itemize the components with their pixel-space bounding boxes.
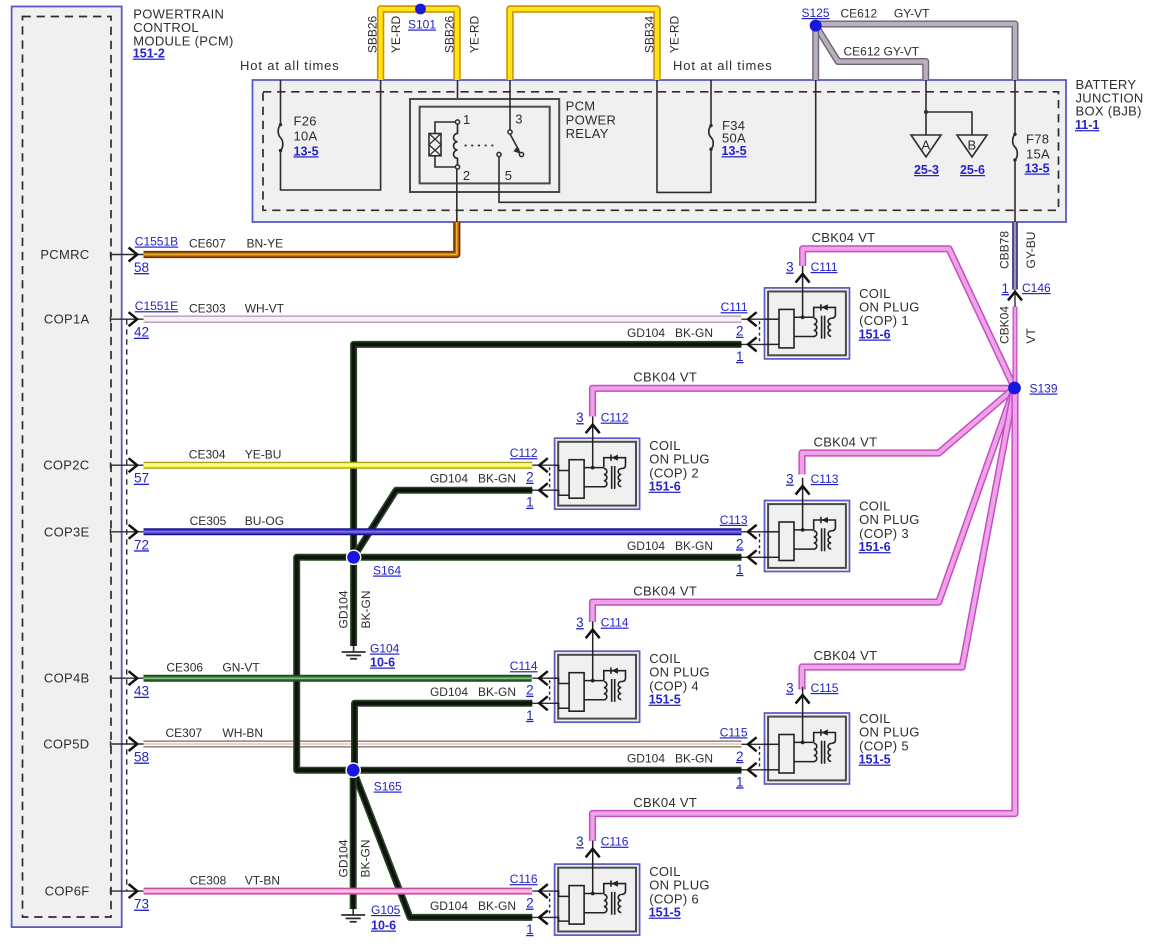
svg-text:GY-BU: GY-BU xyxy=(1024,232,1038,269)
svg-text:58: 58 xyxy=(134,750,149,765)
svg-text:(COP) 1: (COP) 1 xyxy=(859,313,909,328)
svg-text:58: 58 xyxy=(134,260,149,275)
relay outer box xyxy=(410,99,559,192)
lead C146 xyxy=(1014,290,1016,308)
splice S101 xyxy=(415,4,426,15)
svg-text:GD104 BK-GN: GD104 BK-GN xyxy=(430,472,516,486)
arrow into C111 pin 2 xyxy=(748,312,757,326)
lead C112 pin2 xyxy=(532,464,554,466)
splice S165 xyxy=(345,762,361,778)
svg-text:Hot at all times: Hot at all times xyxy=(240,58,340,73)
battery junction box BJB xyxy=(253,80,1067,222)
svg-text:C114: C114 xyxy=(601,616,629,630)
svg-text:COP3E: COP3E xyxy=(44,524,90,539)
arrow out of PCM pin COP1A xyxy=(129,312,138,326)
svg-text:3: 3 xyxy=(786,260,794,275)
wire CBK04 VT S139 to COP2 pin3 xyxy=(593,388,1015,416)
terminal tick PCM pin COP1A xyxy=(110,316,112,322)
arrow into C116 pin 3 xyxy=(586,849,600,858)
label CE307 WH-BN xyxy=(166,726,264,740)
svg-text:2: 2 xyxy=(736,536,744,551)
svg-text:57: 57 xyxy=(134,471,149,486)
svg-text:S101: S101 xyxy=(408,18,436,32)
svg-text:RELAY: RELAY xyxy=(566,126,609,141)
svg-text:43: 43 xyxy=(134,684,149,699)
lead C114 pin1 xyxy=(532,702,554,704)
svg-text:GD104: GD104 xyxy=(336,839,350,877)
arrow into C111 pin 3 xyxy=(796,274,810,283)
arrow into C113 pin 3 xyxy=(796,486,810,495)
svg-text:C115: C115 xyxy=(720,725,748,739)
svg-text:CE304: CE304 xyxy=(189,447,226,461)
label COP5 name xyxy=(859,711,920,767)
svg-text:1: 1 xyxy=(526,495,534,510)
lead PCM pin COP5D xyxy=(111,743,144,745)
arrow into C112 pin 1 xyxy=(539,483,548,497)
svg-text:C113: C113 xyxy=(720,513,748,527)
label COP1 name xyxy=(859,286,920,342)
wire CE306 GN-VT COP4B to COP4 pin2 xyxy=(144,675,532,682)
svg-text:GD104 BK-GN: GD104 BK-GN xyxy=(627,326,713,340)
connector C113 dashed boundary xyxy=(759,534,761,556)
lead C111 pin2 xyxy=(742,318,765,320)
wire CE308 VT-BN COP6F to COP6 pin2 xyxy=(144,888,533,895)
connector C115 dashed boundary xyxy=(759,746,761,768)
svg-text:25-6: 25-6 xyxy=(960,163,985,177)
svg-text:C111: C111 xyxy=(721,300,748,314)
svg-text:GD104 BK-GN: GD104 BK-GN xyxy=(627,539,713,553)
svg-text:CE612 GY-VT: CE612 GY-VT xyxy=(844,45,920,59)
svg-text:VT-BN: VT-BN xyxy=(245,873,280,887)
label CE303 WH-VT xyxy=(189,301,285,315)
svg-text:3: 3 xyxy=(576,410,584,425)
svg-text:(COP) 4: (COP) 4 xyxy=(649,678,699,693)
svg-text:CBK04 VT: CBK04 VT xyxy=(812,230,876,245)
svg-text:CE307: CE307 xyxy=(166,726,203,740)
label COP6 name xyxy=(649,864,710,920)
svg-text:YE-RD: YE-RD xyxy=(389,16,403,54)
svg-text:GD104 BK-GN: GD104 BK-GN xyxy=(627,751,713,765)
svg-text:COP6F: COP6F xyxy=(45,884,90,899)
svg-text:10-6: 10-6 xyxy=(370,656,395,670)
wire relay pin 5 to S125 branch xyxy=(499,80,816,202)
PCM module box xyxy=(12,7,122,928)
arrow into C112 pin 2 xyxy=(539,458,548,472)
lead PCM pin COP3E xyxy=(111,531,144,533)
lead PCM pin COP6F xyxy=(111,890,144,892)
svg-text:C112: C112 xyxy=(601,411,629,425)
connector C112 dashed boundary xyxy=(549,467,551,488)
terminal tick PCM pin COP3E xyxy=(110,529,112,535)
wire CE607 BN-YE PCMRC to relay pin2 xyxy=(144,222,457,255)
wire relay pin 2 to BJB bottom xyxy=(456,169,458,222)
svg-text:YE-BU: YE-BU xyxy=(245,447,282,461)
lead PCM pin COP1A xyxy=(111,318,144,320)
lead PCM pin PCMRC xyxy=(111,254,144,256)
label COP4 name xyxy=(649,651,710,707)
lead C116 pin2 xyxy=(532,890,554,892)
lead C115 pin1 xyxy=(742,769,765,771)
terminal tick PCM pin PCMRC xyxy=(110,252,112,258)
svg-text:2: 2 xyxy=(526,470,534,485)
svg-text:GN-VT: GN-VT xyxy=(222,660,260,674)
svg-text:3: 3 xyxy=(576,615,584,630)
svg-text:(COP) 5: (COP) 5 xyxy=(859,738,909,753)
svg-text:B: B xyxy=(968,138,977,153)
svg-text:CE607: CE607 xyxy=(189,237,226,251)
svg-text:2: 2 xyxy=(736,324,744,339)
svg-text:CBK04 VT: CBK04 VT xyxy=(814,434,878,449)
svg-text:G104: G104 xyxy=(370,642,400,656)
svg-text:C115: C115 xyxy=(811,681,839,695)
svg-text:1: 1 xyxy=(463,112,471,127)
svg-text:F78: F78 xyxy=(1026,131,1049,146)
lead C115 pin2 xyxy=(742,743,765,745)
svg-text:42: 42 xyxy=(134,325,149,340)
wire GD104 BK-GN S165 diagonal to COP6 pin1 xyxy=(353,770,532,917)
svg-text:S139: S139 xyxy=(1030,382,1058,396)
svg-text:(COP) 3: (COP) 3 xyxy=(859,526,909,541)
svg-text:72: 72 xyxy=(134,537,149,552)
svg-text:CE306: CE306 xyxy=(166,660,203,674)
svg-text:5: 5 xyxy=(505,168,513,183)
wire CE303 WH-VT COP1A to COP1 pin2 xyxy=(144,316,742,323)
svg-text:2: 2 xyxy=(526,896,534,911)
svg-text:S125: S125 xyxy=(802,6,830,20)
svg-text:A: A xyxy=(922,138,931,153)
svg-text:3: 3 xyxy=(515,112,523,127)
svg-text:25-3: 25-3 xyxy=(914,163,939,177)
svg-text:BK-GN: BK-GN xyxy=(359,590,373,628)
svg-text:151-5: 151-5 xyxy=(859,753,891,767)
svg-text:C116: C116 xyxy=(601,835,629,849)
svg-text:13-5: 13-5 xyxy=(294,144,319,158)
fuse F26 symbol xyxy=(278,123,283,152)
svg-text:C114: C114 xyxy=(510,659,538,673)
wire SBB26 YE-RD S101 loop xyxy=(381,9,457,80)
wire CBK04 VT C146 to S139 xyxy=(1013,307,1018,385)
arrow out of PCM pin COP6F xyxy=(129,884,138,898)
svg-text:BOX (BJB): BOX (BJB) xyxy=(1076,104,1142,119)
wire SBB34 loop feed xyxy=(657,80,711,192)
svg-text:F26: F26 xyxy=(294,113,317,128)
svg-text:C116: C116 xyxy=(510,872,538,886)
fuse F78 symbol xyxy=(1013,133,1018,162)
label CE607 BN-YE xyxy=(189,237,283,251)
svg-text:1: 1 xyxy=(1001,281,1009,296)
wire CE612 GY-VT S125 to F78 xyxy=(816,24,1015,80)
svg-text:3: 3 xyxy=(576,834,584,849)
connector triangle A xyxy=(911,135,941,157)
arrow out of PCM pin COP2C xyxy=(129,458,138,472)
svg-text:1: 1 xyxy=(526,708,534,723)
terminal tick PCM pin COP4B xyxy=(110,675,112,681)
relay pin 5 terminal xyxy=(497,152,501,156)
svg-text:C1551E: C1551E xyxy=(135,299,178,313)
label PCM title xyxy=(133,6,234,60)
wire GD104 BK-GN S164 to S165 trunk xyxy=(297,557,354,770)
relay coil (inductor) xyxy=(454,122,458,167)
svg-text:1: 1 xyxy=(736,562,744,577)
svg-text:CBK04 VT: CBK04 VT xyxy=(633,795,697,810)
svg-text:PCM: PCM xyxy=(566,99,596,114)
svg-text:(COP) 2: (COP) 2 xyxy=(649,465,699,480)
splice S125 xyxy=(810,20,822,32)
wire CE612 GY-VT S125 to A/B triangles xyxy=(816,26,926,80)
wire CBK04 VT S139 to COP4 pin3 xyxy=(593,388,1015,622)
wire GD104 BK-GN S165 to ground G105 xyxy=(350,770,357,909)
arrow into C111 pin 1 xyxy=(748,337,757,351)
wire CBB78 GY-BU F78 to C146 xyxy=(1012,222,1018,290)
wire CE307 WH-BN COP5D to COP5 pin2 xyxy=(144,741,742,748)
svg-text:SBB26: SBB26 xyxy=(442,15,456,53)
arrow into C115 pin 3 xyxy=(796,695,810,704)
coil on plug COP6 symbol xyxy=(555,841,640,936)
svg-text:BK-GN: BK-GN xyxy=(359,839,373,877)
wire F26 feed from hot-at-all-times xyxy=(280,80,282,125)
junction node A/B xyxy=(924,110,928,114)
wire GD104 BK-GN S165 to COP4 pin1 xyxy=(355,703,533,770)
relay blade contact terminal xyxy=(519,152,523,156)
svg-text:GD104 BK-GN: GD104 BK-GN xyxy=(430,685,516,699)
svg-text:G105: G105 xyxy=(371,903,401,917)
arrow into C146 pin 1 xyxy=(1008,292,1022,301)
lead C116 pin1 xyxy=(532,916,554,918)
arrow into C113 pin 2 xyxy=(748,525,757,539)
svg-text:CBK04: CBK04 xyxy=(998,306,1012,344)
svg-text:C111: C111 xyxy=(811,260,838,274)
wire relay pin 3 feed xyxy=(509,80,511,130)
svg-text:11-1: 11-1 xyxy=(1075,118,1099,132)
terminal tick PCM pin COP6F xyxy=(110,888,112,894)
svg-text:POWER: POWER xyxy=(566,112,617,127)
svg-text:73: 73 xyxy=(134,897,149,912)
svg-text:S165: S165 xyxy=(374,780,402,794)
svg-text:CBB78: CBB78 xyxy=(998,231,1012,269)
svg-text:COP1A: COP1A xyxy=(44,312,90,327)
coil on plug COP5 symbol xyxy=(765,687,850,784)
lead C111 pin1 xyxy=(742,343,765,345)
wire CBK04 VT S139 to COP6 pin3 xyxy=(593,390,1016,841)
svg-text:(COP) 6: (COP) 6 xyxy=(649,891,699,906)
svg-text:SBB26: SBB26 xyxy=(365,15,379,53)
wire F78 feed xyxy=(1014,80,1016,134)
svg-text:3: 3 xyxy=(786,681,794,696)
terminal tick PCM pin COP5D xyxy=(110,741,112,747)
wire GD104 BK-GN S164 to ground G104 xyxy=(350,557,357,646)
arrow into C115 pin 2 xyxy=(748,737,757,751)
terminal tick PCM pin COP2C xyxy=(110,462,112,468)
wire F26 output to SBB26 xyxy=(281,80,381,190)
wire GD104 BK-GN S165 to COP5 pin1 xyxy=(353,767,741,774)
arrow into C114 pin 3 xyxy=(586,630,600,639)
svg-text:13-5: 13-5 xyxy=(722,144,747,158)
svg-text:CBK04 VT: CBK04 VT xyxy=(633,370,697,385)
lead PCM pin COP4B xyxy=(111,677,144,679)
splice S164 xyxy=(346,550,362,566)
svg-text:GD104: GD104 xyxy=(337,590,351,628)
label CE305 BU-OG xyxy=(190,514,284,528)
arrow out of PCM pin PCMRC xyxy=(129,248,138,262)
svg-text:CE308: CE308 xyxy=(190,873,227,887)
lead PCM pin COP2C xyxy=(111,464,144,466)
svg-text:C113: C113 xyxy=(811,472,839,486)
svg-text:YE-RD: YE-RD xyxy=(467,16,481,54)
coil on plug COP4 symbol xyxy=(555,621,640,722)
wire GD104 BK-GN COP1 pin1 to S164 xyxy=(354,344,742,557)
label BJB title xyxy=(1075,77,1144,132)
svg-text:C112: C112 xyxy=(510,446,538,460)
coil on plug COP3 symbol xyxy=(765,478,850,572)
relay suppression resistor xyxy=(429,122,458,167)
relay pin 1 terminal xyxy=(455,120,459,124)
svg-text:1: 1 xyxy=(736,774,744,789)
relay pin 3 terminal xyxy=(508,130,512,134)
svg-text:WH-BN: WH-BN xyxy=(222,726,263,740)
svg-text:VT: VT xyxy=(1024,328,1038,344)
lead C112 pin1 xyxy=(532,489,554,491)
svg-text:CBK04 VT: CBK04 VT xyxy=(633,583,697,598)
svg-text:3: 3 xyxy=(786,472,794,487)
svg-text:COP2C: COP2C xyxy=(43,458,89,473)
arrow into C112 pin 3 xyxy=(586,425,600,434)
svg-text:151-6: 151-6 xyxy=(859,328,891,342)
wire SBB34 YE-RD loop to relay pin3 xyxy=(510,9,657,80)
arrow into C114 pin 1 xyxy=(539,696,548,710)
svg-text:COP4B: COP4B xyxy=(44,671,90,686)
svg-text:1: 1 xyxy=(526,922,534,937)
svg-text:SBB34: SBB34 xyxy=(642,15,656,53)
label COP2 name xyxy=(649,438,710,494)
connector C114 dashed boundary xyxy=(549,680,551,701)
arrow into C113 pin 1 xyxy=(748,550,757,564)
arrow into C115 pin 1 xyxy=(748,763,757,777)
svg-text:C1551B: C1551B xyxy=(135,235,178,249)
fuse F34 symbol xyxy=(709,124,713,151)
svg-text:CBK04 VT: CBK04 VT xyxy=(814,648,878,663)
svg-text:2: 2 xyxy=(463,168,471,183)
connector C116 dashed boundary xyxy=(549,893,551,915)
arrow out of PCM pin COP3E xyxy=(129,525,138,539)
connector triangle B xyxy=(957,135,987,157)
svg-text:10-6: 10-6 xyxy=(371,919,396,933)
svg-text:151-5: 151-5 xyxy=(649,906,681,920)
wire F78 output xyxy=(1014,160,1016,222)
svg-text:151-6: 151-6 xyxy=(649,480,681,494)
label CE304 YE-BU xyxy=(189,447,282,461)
arrow out of PCM pin COP4B xyxy=(129,671,138,685)
lead C113 pin1 xyxy=(742,556,765,558)
wire GD104 BK-GN S164 diagonal to COP2 pin1 xyxy=(354,490,533,557)
svg-text:S164: S164 xyxy=(373,564,401,578)
wire F34 feed from hot-at-all-times xyxy=(710,80,712,126)
arrow out of PCM pin COP5D xyxy=(129,737,138,751)
svg-text:13-5: 13-5 xyxy=(1025,162,1050,176)
svg-text:151-2: 151-2 xyxy=(133,47,165,61)
wire CE612 to A/B junction xyxy=(926,80,972,135)
wire CE304 YE-BU COP2C to COP2 pin2 xyxy=(144,462,533,469)
svg-text:15A: 15A xyxy=(1026,147,1050,162)
svg-text:2: 2 xyxy=(736,749,744,764)
wire CE305 BU-OG COP3E to COP3 pin2 xyxy=(144,528,742,535)
svg-text:CE303: CE303 xyxy=(189,301,226,315)
svg-text:10A: 10A xyxy=(294,129,318,144)
wire CBK04 VT S139 to COP1 pin3 xyxy=(803,249,1015,388)
svg-text:WH-VT: WH-VT xyxy=(245,301,285,315)
svg-text:1: 1 xyxy=(736,349,744,364)
svg-text:CE305: CE305 xyxy=(190,514,227,528)
wire CBK04 VT S139 to COP5 pin3 xyxy=(802,388,1015,690)
svg-text:BN-YE: BN-YE xyxy=(247,237,284,251)
svg-text:PCMRC: PCMRC xyxy=(40,247,89,262)
svg-text:COP5D: COP5D xyxy=(43,737,89,752)
arrow into C114 pin 2 xyxy=(539,671,548,685)
svg-text:2: 2 xyxy=(526,683,534,698)
arrow into C116 pin 2 xyxy=(539,884,548,898)
wire CE612 GY-VT S125 to relay pin5 xyxy=(812,26,819,80)
svg-text:Hot at all times: Hot at all times xyxy=(673,58,773,73)
svg-text:BU-OG: BU-OG xyxy=(245,514,284,528)
lead C114 pin2 xyxy=(532,677,554,679)
lead C113 pin2 xyxy=(742,531,765,533)
svg-text:CE612 GY-VT: CE612 GY-VT xyxy=(841,7,931,21)
connector C111 dashed boundary xyxy=(759,321,761,342)
ground G105 xyxy=(341,909,365,922)
label CE306 GN-VT xyxy=(166,660,260,674)
label COP3 name xyxy=(859,499,920,554)
splice S139 xyxy=(1008,382,1021,395)
svg-text:YE-RD: YE-RD xyxy=(667,16,681,54)
svg-text:151-5: 151-5 xyxy=(649,693,681,707)
svg-text:C146: C146 xyxy=(1022,281,1051,295)
svg-text:151-6: 151-6 xyxy=(859,540,891,554)
relay pin 2 terminal xyxy=(455,165,459,169)
relay switch blade xyxy=(510,134,522,154)
wire CBK04 VT S139 to COP3 pin3 xyxy=(802,388,1015,475)
arrow into C116 pin 1 xyxy=(539,910,548,924)
coil on plug COP2 symbol xyxy=(555,416,640,509)
svg-text:GD104 BK-GN: GD104 BK-GN xyxy=(430,899,516,913)
relay armature dotted link xyxy=(465,145,498,147)
wire SBB26 to relay pin 1 xyxy=(457,80,459,120)
label CE308 VT-BN xyxy=(190,873,280,887)
wire GD104 BK-GN S164 to COP3 pin1 xyxy=(354,554,742,561)
ground G104 xyxy=(342,646,366,659)
connector C1551E dashed boundary xyxy=(126,319,128,891)
coil on plug COP1 symbol xyxy=(765,266,850,359)
